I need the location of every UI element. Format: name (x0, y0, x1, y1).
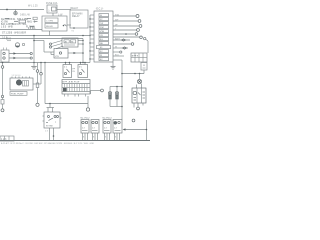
diode D1 wire (9, 52, 32, 54)
wire arrow to right rail (123, 120, 148, 141)
svg-text:W-L 1.25: W-L 1.25 (28, 5, 38, 8)
svg-text:A 22 A/T · B 22 J/B No.2 · IG1: A 22 A/T · B 22 J/B No.2 · IG1 SW · E01 … (1, 142, 95, 145)
wire fan feed elbow (33, 40, 54, 55)
wire bus L2 (0, 35, 90, 37)
label box under motor (10, 92, 27, 96)
ECU right pin wires with connector circles (113, 15, 148, 61)
connector CB top right label box (131, 53, 147, 62)
svg-text:B FP E: B FP E (132, 56, 139, 58)
wire to pump branch (122, 73, 144, 75)
wire bus L3 (0, 38, 83, 40)
svg-text:BATT: BATT (115, 37, 121, 40)
svg-text:· E.C.U ·: · E.C.U · (95, 9, 104, 11)
diode D3 wire to vertical (68, 52, 84, 54)
node bus junctions (33, 62, 84, 64)
svg-text:W: W (115, 46, 117, 48)
svg-text:FUEL PUMP: FUEL PUMP (11, 94, 24, 96)
pin labels right of ECU (115, 13, 121, 56)
node junction on top feed (6, 9, 8, 11)
svg-text:▾1: ▾1 (72, 30, 75, 33)
connector C2 (91, 120, 99, 141)
wire left drop (1, 62, 4, 112)
wire switch drop (47, 103, 55, 112)
legend text under rail (1, 142, 95, 145)
legend small table bottom left (0, 136, 14, 141)
svg-text:W: W (100, 55, 102, 57)
svg-text:▯: ▯ (48, 9, 50, 12)
svg-text:RELAY: RELAY (72, 15, 80, 18)
svg-text:ST 1.25 B · W-B 0.85 R: ST 1.25 B · W-B 0.85 R (2, 32, 26, 34)
wire B2 to relay K2 (67, 24, 71, 26)
switch S1 box (43, 112, 62, 128)
wire motor to connector (33, 83, 41, 85)
connector C4 with motor (113, 120, 122, 141)
ground G1 (31, 63, 37, 70)
text between relays (73, 69, 76, 74)
svg-text:1 2: 1 2 (92, 128, 96, 130)
wire fan slant 1 (49, 41, 62, 46)
svg-text:FP: FP (73, 69, 76, 71)
connector inline C5 (19, 20, 26, 23)
wire vertical to ground G1 (33, 36, 35, 63)
svg-text:VTA: VTA (100, 30, 104, 33)
diode D2 wire (9, 57, 32, 59)
svg-text:1 3: 1 3 (45, 130, 49, 132)
connector C3 (103, 120, 111, 141)
wire left bus vertical (89, 15, 91, 63)
terminal strip TB1 (62, 80, 90, 97)
fuse F1 (46, 2, 58, 13)
text row under L1 (2, 28, 36, 34)
connector circle above motor wire (40, 62, 43, 84)
svg-text:2 1: 2 1 (64, 67, 68, 69)
lamp L1 with cross (137, 73, 141, 84)
injector I2 lamp (115, 92, 118, 107)
wire bottom ground rail (0, 140, 150, 142)
svg-text:o: o (55, 122, 57, 124)
wire strip to connector circle (91, 89, 104, 94)
svg-text:[SW]: [SW] (6, 39, 11, 41)
wire to lamp (45, 103, 88, 105)
wire fan slant 3 (56, 46, 63, 49)
node drop to injector feed (121, 60, 123, 120)
connector circle lamp (86, 108, 89, 111)
svg-text:ST SW: ST SW (46, 125, 53, 127)
ground G2 hanging connector (14, 10, 17, 15)
svg-text:L 0.5 · W-B: L 0.5 · W-B (1, 27, 13, 29)
labels above connectors (81, 118, 113, 120)
ECU U1 (94, 9, 113, 62)
svg-text:2.0 R-L: 2.0 R-L (28, 28, 36, 30)
connector C1 (81, 120, 89, 141)
svg-text:TW: TW (100, 23, 103, 25)
svg-text:1 2: 1 2 (82, 128, 86, 130)
relay K3 contacts (1, 48, 9, 63)
ECU left pin stubs on bus (90, 15, 94, 59)
relay R3 left (63, 62, 72, 78)
junction box B2 (42, 16, 67, 31)
pump P1 fuel pump sender (132, 84, 146, 110)
wire label dashes (5, 19, 38, 27)
relay box K2 (70, 7, 88, 33)
relay R4 right (78, 62, 88, 78)
wire top feed (0, 9, 44, 11)
wire switch pins down (50, 128, 55, 141)
text rows net labels top left (1, 19, 36, 29)
svg-text:RELAY: RELAY (71, 7, 79, 10)
node lamp corner (87, 96, 89, 108)
pin labels under connectors (83, 137, 117, 139)
ground G3 under ECU (111, 62, 116, 69)
horn H1 (15, 43, 19, 47)
svg-text:C OPN: C OPN (46, 21, 53, 23)
svg-text:1 2 3 4 5 6: 1 2 3 4 5 6 (12, 75, 21, 77)
svg-text:VSV: VSV (55, 56, 60, 58)
wire mid drop (44, 63, 46, 104)
motor M1 circ opening motor assy (10, 75, 33, 90)
svg-text:RL: RL (73, 71, 76, 73)
svg-text:PIM: PIM (100, 27, 104, 29)
wire fuse drop to junction box (52, 13, 54, 16)
injector I1 lamp (108, 92, 111, 107)
svg-text:1 2: 1 2 (104, 128, 108, 130)
connector inline C6 (33, 17, 37, 19)
connector circle right of horn (22, 43, 24, 45)
wire B2 drop (49, 31, 51, 36)
connector circle above C4 right (132, 119, 135, 122)
wire main bus (0, 62, 90, 64)
wire injector feed (110, 86, 123, 92)
wire fan slant 2 (49, 44, 62, 49)
svg-text:1 2: 1 2 (114, 128, 118, 130)
svg-text:0.85 L-W: 0.85 L-W (20, 14, 30, 17)
connector housing CN1 (62, 38, 78, 47)
connector shell under label box (141, 63, 147, 74)
wire bus L1 (0, 29, 42, 31)
wire housing to vertical (78, 40, 84, 45)
wire fuse to relay (57, 9, 71, 11)
svg-text:3 5: 3 5 (79, 67, 83, 69)
wire injector return (110, 106, 123, 108)
wire vertical x83 (82, 39, 84, 63)
svg-text:RELAY: RELAY (46, 25, 54, 28)
wire sensor chain (36, 63, 39, 107)
switch S2 box (54, 49, 68, 59)
svg-text:STA: STA (115, 13, 119, 16)
